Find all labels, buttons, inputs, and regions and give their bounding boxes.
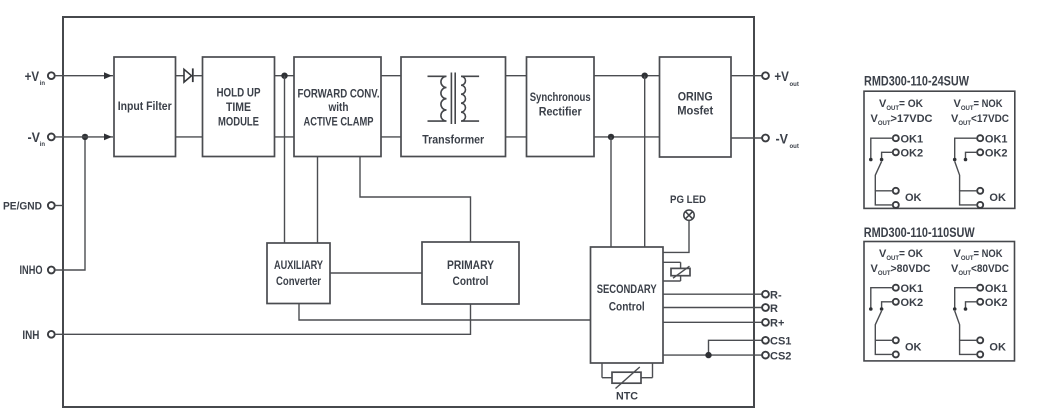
- svg-text:MODULE: MODULE: [218, 115, 259, 129]
- svg-text:Control: Control: [453, 274, 489, 288]
- terminal PE/GND: [48, 202, 55, 209]
- thermistor NTC: [602, 363, 653, 389]
- svg-text:VOUT>80VDC: VOUT>80VDC: [871, 263, 931, 277]
- wire R-: [663, 293, 762, 295]
- wire +V transformer to sync rect: [506, 75, 527, 77]
- svg-text:NTC: NTC: [616, 391, 638, 403]
- svg-text:PRIMARY: PRIMARY: [447, 258, 494, 272]
- svg-text:PG LED: PG LED: [670, 194, 706, 206]
- svg-text:OK: OK: [989, 342, 1006, 354]
- svg-text:in: in: [40, 142, 46, 148]
- svg-text:CS2: CS2: [770, 350, 791, 362]
- svg-text:ORING: ORING: [678, 89, 713, 103]
- wire R: [663, 307, 762, 309]
- svg-text:+V: +V: [774, 68, 789, 84]
- svg-text:FORWARD CONV.: FORWARD CONV.: [298, 87, 380, 101]
- block Transformer: [401, 57, 506, 157]
- svg-text:OK1: OK1: [901, 283, 924, 295]
- svg-text:OK1: OK1: [985, 283, 1008, 295]
- svg-text:out: out: [790, 82, 799, 88]
- svg-text:Control: Control: [609, 300, 645, 314]
- terminal INHO: [48, 267, 55, 274]
- node +V bus to aux: [281, 73, 287, 79]
- panel RMD300-110-24SUW box: [864, 91, 1015, 208]
- svg-text:Transformer: Transformer: [422, 133, 484, 147]
- wire CS1: [709, 340, 763, 355]
- wire -V forward to transformer: [381, 136, 401, 138]
- wire -Vin bus segment 1: [55, 136, 113, 138]
- svg-text:with: with: [328, 100, 349, 114]
- terminal R-: [762, 291, 769, 298]
- terminal +Vin: [48, 72, 55, 79]
- svg-text:PE/GND: PE/GND: [3, 201, 42, 213]
- arrow into input filter (+V): [104, 72, 112, 79]
- svg-text:-V: -V: [776, 130, 789, 146]
- relay contacts NOK state (110SUW): [953, 285, 983, 358]
- svg-text:in: in: [40, 81, 46, 87]
- wire +V forward to transformer: [381, 75, 401, 77]
- svg-text:TIME: TIME: [226, 100, 251, 114]
- svg-text:OK1: OK1: [901, 134, 924, 146]
- svg-text:-V: -V: [28, 129, 41, 145]
- wire aux to primary control: [330, 272, 422, 274]
- wire INH to primary control: [55, 304, 471, 334]
- wire +V oring to +Vout: [731, 75, 762, 77]
- svg-text:+V: +V: [25, 68, 40, 84]
- block Secondary Control: [591, 247, 664, 363]
- wire -V holdup to forward: [275, 136, 295, 138]
- wire R+: [663, 321, 762, 323]
- svg-text:R: R: [770, 303, 778, 315]
- svg-text:VOUT= NOK: VOUT= NOK: [954, 248, 1003, 262]
- svg-text:INH: INH: [22, 330, 39, 342]
- svg-text:Converter: Converter: [276, 274, 321, 288]
- wire +V node down to auxiliary converter: [284, 76, 286, 243]
- svg-text:RMD300-110-110SUW: RMD300-110-110SUW: [864, 225, 975, 240]
- terminal R+: [762, 319, 769, 326]
- wire INHO to -Vin node: [55, 137, 85, 270]
- svg-text:OK2: OK2: [901, 148, 924, 160]
- block Auxiliary Converter: [267, 243, 330, 304]
- wire -V oring to -Vout: [731, 137, 762, 139]
- node on -Vin bus: [82, 134, 88, 140]
- svg-text:OK: OK: [905, 192, 922, 204]
- block Hold Up Time Module: [203, 57, 275, 157]
- relay coil K1: [663, 262, 690, 281]
- wire forward bottom to primary control: [360, 157, 471, 243]
- svg-text:VOUT<80VDC: VOUT<80VDC: [951, 263, 1009, 277]
- terminal -Vout: [762, 135, 769, 142]
- arrow into input filter (-V): [104, 134, 112, 141]
- terminal R: [762, 304, 769, 311]
- svg-text:RMD300-110-24SUW: RMD300-110-24SUW: [864, 73, 969, 88]
- block Forward Converter: [294, 57, 381, 157]
- relay contacts OK state (24SUW): [869, 135, 899, 208]
- panel RMD300-110-110SUW box: [864, 242, 1015, 361]
- block Primary Control: [422, 242, 519, 304]
- wire LED to secondary control: [663, 220, 689, 252]
- terminal INH: [48, 331, 55, 338]
- wire +V holdup to forward: [275, 75, 295, 77]
- svg-text:OK2: OK2: [985, 297, 1008, 309]
- svg-text:OK: OK: [905, 342, 922, 354]
- svg-text:VOUT>17VDC: VOUT>17VDC: [871, 113, 933, 127]
- svg-text:VOUT= NOK: VOUT= NOK: [954, 98, 1003, 112]
- wire forward bottom to auxiliary converter: [317, 157, 319, 244]
- svg-text:CS1: CS1: [770, 336, 791, 348]
- svg-text:OK2: OK2: [901, 297, 924, 309]
- transformer symbol T1: [428, 73, 480, 125]
- wire CS2: [663, 354, 762, 356]
- wire +V filter to diode: [176, 75, 184, 77]
- wire -V filter to holdup: [176, 136, 203, 138]
- relay contacts NOK state (24SUW): [953, 135, 983, 208]
- wire -V transformer to sync rect: [506, 136, 527, 138]
- svg-text:VOUT= OK: VOUT= OK: [879, 98, 923, 112]
- svg-text:OK1: OK1: [985, 134, 1008, 146]
- wire +V node down to secondary control: [644, 76, 646, 247]
- svg-text:VOUT= OK: VOUT= OK: [879, 248, 923, 262]
- block ORING Mosfet: [660, 57, 732, 157]
- terminal CS2: [762, 352, 769, 359]
- terminal CS1: [762, 337, 769, 344]
- svg-text:INHO: INHO: [20, 265, 43, 277]
- svg-text:OK: OK: [989, 192, 1006, 204]
- terminal -Vin: [48, 134, 55, 141]
- svg-text:HOLD UP: HOLD UP: [217, 86, 261, 100]
- svg-text:out: out: [790, 144, 799, 150]
- svg-text:Mosfet: Mosfet: [677, 104, 713, 118]
- svg-text:R-: R-: [770, 290, 782, 302]
- wire PE/GND to enclosure: [55, 205, 64, 207]
- LED indicator: [684, 210, 694, 220]
- terminal +Vout: [762, 72, 769, 79]
- node -V to secondary: [608, 134, 614, 140]
- svg-text:Rectifier: Rectifier: [539, 104, 582, 118]
- svg-text:ACTIVE CLAMP: ACTIVE CLAMP: [304, 115, 374, 129]
- svg-text:SECONDARY: SECONDARY: [597, 282, 657, 296]
- node CS join: [705, 352, 711, 358]
- svg-text:Input Filter: Input Filter: [118, 99, 172, 113]
- svg-text:OK2: OK2: [985, 148, 1008, 160]
- wire +Vin bus segment 1: [55, 75, 113, 77]
- wire +V sync to oring: [594, 75, 660, 77]
- wire -V node down to secondary control: [610, 137, 612, 247]
- svg-text:R+: R+: [770, 318, 784, 330]
- enclosure outline: [63, 17, 754, 407]
- block Synchronous Rectifier: [527, 57, 595, 157]
- svg-text:AUXILIARY: AUXILIARY: [274, 258, 323, 272]
- block Input Filter: [114, 57, 176, 157]
- wire aux bottom to secondary control: [299, 304, 591, 321]
- node +V to secondary: [642, 73, 648, 79]
- diode D1: [184, 69, 192, 82]
- relay contacts OK state (110SUW): [869, 285, 899, 358]
- wire -V sync to oring: [594, 136, 660, 138]
- svg-text:Synchronous: Synchronous: [530, 90, 591, 104]
- svg-text:VOUT<17VDC: VOUT<17VDC: [951, 113, 1009, 127]
